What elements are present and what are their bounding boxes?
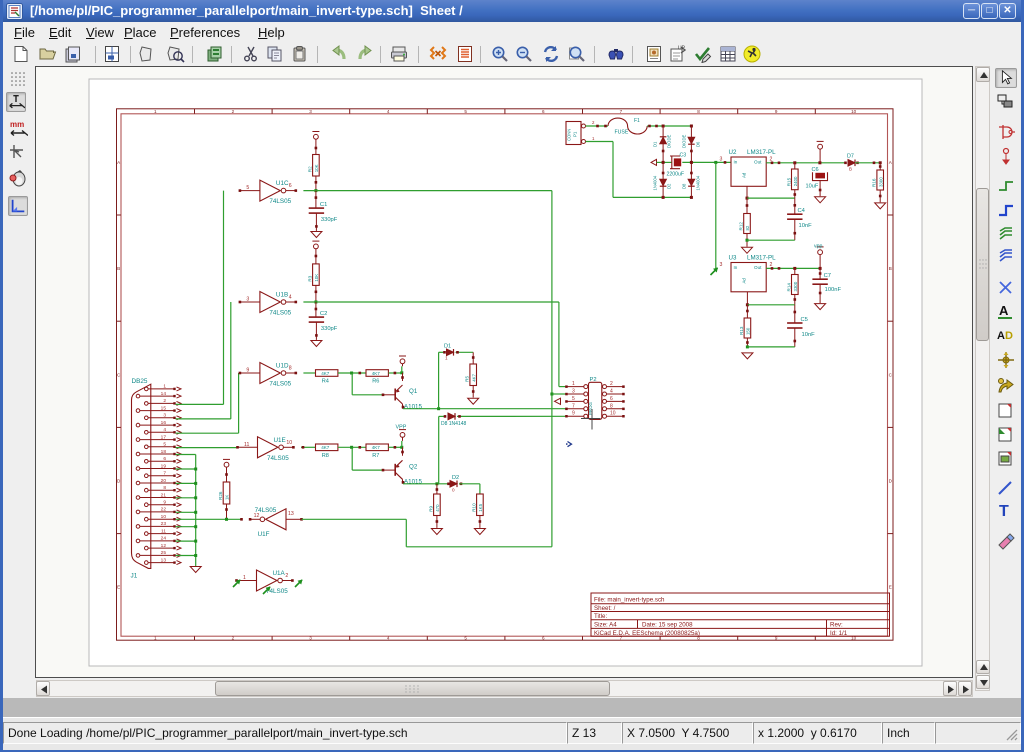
fuse F1 [608, 118, 647, 134]
svg-text:R2: R2 [307, 166, 312, 172]
svg-text:3: 3 [309, 636, 312, 641]
wire R16 bottom stub [879, 190, 881, 202]
wire R3 top stub [315, 249, 317, 264]
power flag above C6 [817, 141, 824, 149]
svg-text:4: 4 [163, 427, 166, 433]
ERC marker U1A right [295, 580, 303, 588]
svg-text:U1A: U1A [273, 570, 286, 577]
svg-text:Ad: Ad [742, 172, 747, 178]
capacitor C5 [787, 317, 815, 338]
inverter U1C 74LS05 [239, 180, 298, 205]
wire U2 out [766, 162, 846, 164]
diode D6 bridge [688, 137, 695, 144]
wire C7 bottom stub [819, 284, 821, 303]
svg-text:T: T [999, 503, 1009, 520]
svg-text:470: 470 [435, 504, 440, 512]
resistor R5 [465, 364, 477, 386]
svg-text:23: 23 [161, 521, 167, 527]
svg-text:3: 3 [309, 109, 312, 114]
svg-text:P2: P2 [590, 377, 597, 383]
wire Q1 collector row to P2 pin7 [403, 408, 567, 410]
ground R16 [875, 203, 886, 209]
wire U1C output long [303, 190, 552, 192]
power flag above Q1 [399, 356, 406, 364]
svg-text:9: 9 [775, 109, 778, 114]
svg-text:24: 24 [161, 536, 167, 542]
svg-text:8: 8 [289, 366, 292, 372]
wire U1E out to R8 [301, 446, 316, 448]
capacitor C7 [812, 273, 841, 293]
wire D3 to P2 pin9 [457, 415, 567, 417]
svg-text:UP: UP [678, 46, 686, 52]
svg-text:C6: C6 [812, 167, 819, 173]
wire C2 bottom stub [315, 322, 317, 340]
svg-text:12: 12 [254, 513, 260, 519]
svg-text:E: E [889, 585, 892, 590]
svg-text:4: 4 [387, 109, 390, 114]
ground J1 rail [190, 567, 201, 573]
wire bridge left leg [662, 126, 664, 197]
svg-text:D8 1N4148: D8 1N4148 [441, 421, 467, 427]
diode D3 1N4148 [448, 413, 455, 420]
svg-text:mm: mm [10, 120, 24, 129]
wire P1 top to fuse [586, 125, 609, 127]
svg-text:25: 25 [161, 550, 167, 556]
svg-text:10nF: 10nF [802, 332, 816, 338]
svg-text:74LS05: 74LS05 [267, 455, 289, 462]
svg-text:10uF: 10uF [806, 184, 819, 190]
svg-text:10: 10 [610, 411, 616, 417]
svg-text:Title:: Title: [594, 613, 607, 620]
junction D1 branch [437, 407, 440, 410]
svg-text:D7: D7 [847, 154, 854, 160]
wire R8 to R7 [338, 446, 366, 448]
capacitor C2 [309, 311, 338, 332]
inverter U1B 74LS05 [239, 292, 298, 317]
svg-text:2: 2 [285, 573, 288, 579]
title block [591, 593, 890, 637]
ground C6 [815, 197, 826, 203]
svg-text:15: 15 [161, 405, 167, 411]
resistor R14 [786, 275, 798, 295]
svg-text:DIODE: DIODE [681, 135, 686, 148]
svg-text:10K: 10K [314, 164, 319, 172]
svg-text:D1: D1 [653, 141, 658, 147]
wire J1 ground rail [176, 454, 196, 456]
junction R4-R6 branch [350, 372, 353, 375]
svg-text:DB25: DB25 [132, 378, 148, 385]
svg-text:D2: D2 [667, 183, 672, 189]
wire J1 pin5 to U1E [176, 447, 238, 449]
wire up to power flag Q1 [401, 366, 403, 373]
svg-text:10: 10 [286, 440, 292, 446]
svg-text:D8: D8 [681, 183, 686, 189]
wire flag to bridge mid [657, 161, 672, 163]
svg-text:3: 3 [572, 389, 575, 395]
svg-text:A: A [999, 303, 1009, 318]
svg-text:7: 7 [620, 109, 623, 114]
connector P2 [565, 377, 625, 419]
wire C4 to R12 gnd [747, 239, 795, 241]
wire R4 to R6 [338, 372, 366, 374]
svg-text:2: 2 [163, 398, 166, 404]
svg-text:R8: R8 [322, 453, 329, 459]
svg-text:22: 22 [161, 507, 167, 513]
svg-text:R12: R12 [739, 222, 744, 231]
wire bridge right leg [690, 126, 692, 197]
diode D7 [848, 160, 855, 167]
svg-text:21: 21 [161, 492, 167, 498]
wires J1 pins 19-25 to rail [176, 468, 198, 558]
svg-text:2: 2 [232, 636, 235, 641]
power flag VPP C7 [817, 247, 824, 255]
resistor R13 [739, 318, 751, 338]
wire C5 to R13 gnd [747, 346, 794, 348]
resistor R7 [366, 444, 388, 459]
svg-text:10K: 10K [314, 274, 319, 282]
resistor R12 [739, 214, 751, 234]
inverter U1E 74LS05 [236, 437, 295, 462]
svg-text:10: 10 [851, 109, 857, 114]
wire C5 top stub [794, 305, 796, 323]
svg-text:R13: R13 [739, 326, 744, 335]
wire R10 bottom stub [479, 516, 481, 528]
wire R6 to Q1 emitter node [389, 372, 402, 374]
ground R13 [742, 353, 753, 359]
wire D1 right [456, 351, 474, 353]
svg-text:10nF: 10nF [799, 223, 813, 229]
inverter U1D 74LS05 [239, 363, 298, 388]
capacitor C4 [787, 208, 812, 229]
svg-text:6: 6 [542, 636, 545, 641]
resistor R15 [786, 169, 798, 190]
wire fuse to bridge [647, 125, 691, 127]
frame outer border [117, 109, 894, 640]
cursor crosshair [591, 409, 593, 430]
junction Q2 emitter node [400, 446, 403, 449]
wire down to U3 [715, 162, 717, 268]
svg-text:9: 9 [572, 411, 575, 417]
svg-text:4: 4 [289, 295, 292, 301]
wire U2 adj [746, 186, 748, 198]
junction bridge top right [690, 125, 693, 128]
svg-text:E: E [117, 585, 120, 590]
svg-text:2200uF: 2200uF [667, 172, 685, 178]
power flag above R3 [312, 241, 319, 249]
svg-text:3: 3 [246, 297, 249, 303]
wire Q1 emitter stub [402, 373, 404, 381]
svg-text:1N4004: 1N4004 [695, 175, 700, 190]
svg-text:74LS05: 74LS05 [269, 310, 291, 317]
svg-text:B: B [849, 167, 852, 172]
wire flag to C6 node [819, 149, 821, 163]
svg-text:4: 4 [387, 636, 390, 641]
wire Q2 collector row [403, 483, 449, 485]
wire R26 top stub [226, 467, 228, 482]
svg-text:74LS05: 74LS05 [269, 198, 291, 205]
junction R13 bottom [746, 345, 749, 348]
ERC marker U1A bottom [263, 587, 271, 595]
svg-text:LM317-PL: LM317-PL [747, 255, 776, 262]
svg-text:5: 5 [572, 396, 575, 402]
svg-text:18: 18 [161, 449, 167, 455]
svg-text:vpp: vpp [814, 244, 822, 250]
svg-text:Out: Out [754, 160, 762, 165]
ERC marker U1A left [233, 580, 241, 588]
svg-text:7: 7 [572, 403, 575, 409]
svg-text:C3: C3 [680, 153, 687, 159]
ground R5 [468, 398, 479, 404]
svg-text:R3: R3 [307, 275, 312, 281]
wire bridge bottom [663, 196, 691, 198]
svg-text:1N4004: 1N4004 [653, 175, 658, 190]
svg-text:C5: C5 [801, 317, 808, 323]
svg-text:R15: R15 [786, 177, 791, 186]
wire J1 pin10 to U1F [176, 518, 241, 520]
svg-text:Rev:: Rev: [830, 622, 843, 629]
svg-text:8: 8 [697, 109, 700, 114]
power flag above R2 [312, 132, 319, 140]
svg-text:13: 13 [161, 557, 167, 563]
svg-text:4K7: 4K7 [321, 445, 330, 450]
wire Q2 base drop [351, 447, 353, 470]
ground C2 [311, 341, 322, 347]
svg-text:4K7: 4K7 [471, 373, 476, 381]
svg-text:2: 2 [232, 109, 235, 114]
wire D3 left [439, 415, 445, 417]
wire C6 bottom stub [819, 181, 821, 197]
resistor R6 [366, 370, 388, 385]
svg-text:Size: A4: Size: A4 [594, 622, 617, 629]
wire J1 pin4 to U1D [176, 432, 239, 434]
wire C4 top stub [794, 198, 796, 214]
wire D1 to R5 [472, 352, 474, 364]
svg-text:Date: 15 sep 2008: Date: 15 sep 2008 [642, 622, 693, 629]
transistor Q1 A1015 [395, 385, 402, 404]
wire adj row U3 [747, 304, 794, 306]
svg-text:16: 16 [161, 420, 167, 426]
wire R26 bottom stub [226, 504, 228, 519]
svg-text:20: 20 [161, 478, 167, 484]
wire D7 to R16 [855, 162, 880, 164]
diode D8 bridge [688, 179, 695, 186]
junction P2 pin3 net [550, 393, 553, 396]
frame inner border [121, 114, 888, 636]
diode D1 [447, 349, 454, 356]
svg-text:P1: P1 [573, 131, 578, 137]
svg-text:7: 7 [163, 471, 166, 477]
svg-text:D: D [1005, 330, 1013, 342]
resistor R4 [316, 370, 338, 385]
svg-text:1: 1 [572, 381, 575, 387]
svg-text:Ad: Ad [742, 278, 747, 284]
wire U3 adj [746, 292, 748, 305]
wire R5 bottom stub [472, 386, 474, 398]
svg-text:19: 19 [161, 463, 167, 469]
regulator U3 LM317-PL [729, 255, 777, 292]
svg-text:1K: 1K [225, 495, 230, 500]
svg-text:Id: 1/1: Id: 1/1 [830, 630, 848, 637]
junction U3 adj [746, 303, 749, 306]
svg-text:R16: R16 [872, 178, 877, 187]
wire C1 bottom stub [315, 213, 317, 231]
regulator U2 LM317-PL [729, 149, 777, 186]
svg-text:14: 14 [161, 391, 167, 397]
resistor R3 [307, 264, 319, 286]
wire net to P2 pin1 [558, 302, 560, 387]
svg-text:Q1: Q1 [409, 388, 418, 395]
wire VPP flag to C7 node [819, 255, 821, 269]
svg-text:VPP: VPP [396, 425, 407, 431]
svg-text:U1D: U1D [276, 363, 289, 370]
junction R12 bottom [746, 239, 749, 242]
capacitor C6 10uF [813, 172, 828, 180]
frame zone ticks [117, 109, 894, 641]
svg-text:8: 8 [163, 485, 166, 491]
page sheet [89, 79, 922, 666]
svg-text:KiCad E.D.A. EESchema (200808: KiCad E.D.A. EESchema (20080825a) [594, 630, 700, 637]
power flag VPP Q2 [399, 430, 406, 438]
ERC arrow U3 input [711, 268, 719, 276]
wire Q1 collector stub [402, 404, 404, 409]
svg-text:U2: U2 [729, 149, 737, 156]
wire D1 branch vertical [438, 352, 440, 408]
svg-text:R5: R5 [465, 375, 470, 381]
svg-text:D1: D1 [444, 344, 451, 350]
wire U1F left pad [240, 518, 243, 521]
svg-text:9: 9 [246, 368, 249, 374]
power flag above R26 [223, 459, 230, 467]
wire R15 bottom stub [794, 190, 796, 198]
wire R15 top stub [794, 163, 796, 169]
svg-text:R14: R14 [786, 283, 791, 292]
wire R14 bottom stub [794, 295, 796, 305]
svg-text:B: B [117, 266, 120, 271]
wire Q1 base drop [351, 373, 353, 395]
resistor R9 [428, 494, 440, 516]
svg-text:A1015: A1015 [404, 404, 422, 411]
svg-text:3300: 3300 [793, 281, 798, 291]
svg-text:4K7: 4K7 [321, 371, 330, 376]
connector J1 DB25 shell [132, 384, 151, 568]
svg-text:Out: Out [754, 265, 762, 270]
svg-text:C7: C7 [824, 273, 831, 279]
wire R3 bottom stub [315, 285, 317, 302]
wire D2 to R10 [459, 483, 480, 485]
junction R8-R7 branch [350, 446, 353, 449]
svg-text:6: 6 [163, 456, 166, 462]
svg-text:Q2: Q2 [409, 463, 418, 470]
wire Q2 emitter stub [402, 447, 404, 456]
ground C1 [311, 232, 322, 238]
wire D1 left [439, 351, 445, 353]
ground R12 [742, 247, 753, 253]
svg-text:8: 8 [610, 403, 613, 409]
svg-text:17: 17 [161, 434, 167, 440]
resistor R26 [218, 482, 230, 504]
svg-text:11: 11 [244, 442, 249, 448]
svg-text:330pF: 330pF [321, 217, 338, 223]
resistor R8 [316, 444, 338, 459]
svg-text:11: 11 [161, 528, 166, 534]
transistor Q2 A1015 [395, 460, 402, 479]
svg-text:FUSE: FUSE [615, 130, 629, 136]
svg-text:5: 5 [464, 109, 467, 114]
ground R9 [431, 529, 442, 535]
svg-text:R6: R6 [372, 379, 379, 385]
wire R9 top stub [436, 484, 438, 494]
svg-text:In: In [734, 160, 738, 165]
svg-text:File: main_invert-type.sch: File: main_invert-type.sch [594, 596, 665, 603]
svg-text:LM317-PL: LM317-PL [747, 149, 776, 156]
wire C5 bottom stub [794, 328, 796, 347]
junction R9 branch [435, 482, 438, 485]
svg-text:150: 150 [746, 327, 751, 335]
svg-text:5: 5 [163, 442, 166, 448]
wire C4 bottom stub [794, 219, 796, 240]
junction U1C output [314, 189, 317, 192]
svg-text:6: 6 [610, 396, 613, 402]
svg-text:330pF: 330pF [321, 326, 338, 332]
wire R13 top stub [746, 305, 748, 318]
junction R26 pin10 net [225, 518, 228, 521]
connector P1 CONN-2 [566, 120, 595, 145]
svg-text:In: In [734, 265, 738, 270]
junction C7 top [819, 267, 822, 270]
wire R2 bottom stub [315, 176, 317, 191]
svg-text:A: A [997, 330, 1005, 342]
inverter U1A 74LS05 [235, 570, 294, 595]
wire R7 to Q2 emitter node [389, 446, 402, 448]
svg-text:82: 82 [745, 225, 750, 230]
junction R16 top [879, 161, 882, 164]
junction U2 adj [746, 197, 749, 200]
svg-text:3: 3 [163, 413, 166, 419]
capacitor C1 [309, 202, 338, 223]
junction C6 top [818, 161, 821, 164]
svg-text:10: 10 [161, 514, 167, 520]
wire R2 top stub [315, 139, 317, 154]
svg-text:Sheet: /: Sheet: / [594, 605, 616, 612]
wire U1D out to R4 [303, 372, 315, 374]
diode D4 bridge [660, 179, 667, 186]
ground R10 [474, 529, 485, 535]
wire U1B output long [303, 301, 559, 303]
cursor chevron [568, 442, 572, 447]
wire bridge mid to U2 [682, 161, 731, 163]
resistor R16 [872, 170, 884, 190]
junction U1B output [314, 301, 317, 304]
diode D5 bridge [660, 137, 667, 144]
svg-text:U1B: U1B [276, 292, 288, 299]
svg-text:5: 5 [246, 185, 249, 191]
wire Q1 base red [384, 394, 396, 396]
junction R14 top [793, 267, 796, 270]
svg-text:9: 9 [163, 500, 166, 506]
wire C7 top stub [819, 268, 821, 279]
svg-text:1: 1 [154, 109, 157, 114]
wire R9 bottom stub [436, 516, 438, 528]
svg-text:0: 0 [452, 488, 455, 493]
wire D3 branch vertical [438, 416, 440, 483]
connector J1 pins [136, 384, 181, 565]
power flag arrow bridge [651, 159, 657, 165]
capacitor C3 2200uF [670, 156, 680, 169]
wire net down right side [551, 191, 553, 547]
wire up to VPP flag [401, 441, 403, 447]
junction bridge bottom left [662, 196, 665, 199]
svg-text:1: 1 [154, 636, 157, 641]
